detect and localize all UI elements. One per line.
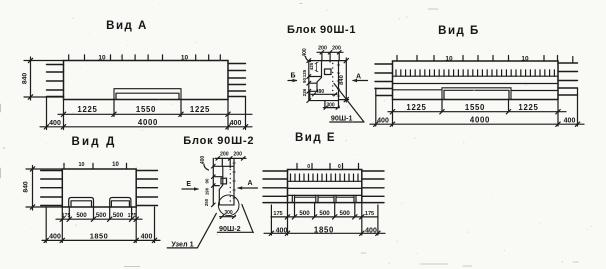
svg-text:10: 10: [445, 56, 453, 63]
view D right hatch: [136, 171, 157, 206]
block2 dim 300: [220, 210, 236, 219]
svg-text:175: 175: [365, 211, 374, 217]
svg-text:10: 10: [521, 56, 529, 63]
svg-text:400: 400: [49, 234, 61, 241]
block1 keyway notch: [325, 69, 332, 75]
block1 section arrow B: [288, 73, 298, 83]
view D extension lines: [46, 207, 154, 243]
view B ledge 1550: [442, 88, 511, 100]
view E mid line: [288, 187, 362, 189]
svg-text:175: 175: [62, 213, 71, 219]
svg-text:250: 250: [204, 198, 209, 206]
view E dim row 175 500 500 500 175: [271, 210, 378, 219]
block2 keyway notch: [221, 178, 227, 184]
view E dim row 400 1850 400: [264, 225, 385, 235]
svg-text:10: 10: [98, 55, 106, 62]
svg-text:500: 500: [319, 210, 330, 217]
block2 section outline: [219, 166, 234, 205]
svg-text:1225: 1225: [406, 103, 426, 112]
svg-text:90Ш-2: 90Ш-2: [219, 224, 241, 233]
view D ledge right: [110, 198, 131, 208]
view A dim row 1225 1550 1225: [58, 105, 252, 117]
view D left hatch: [41, 171, 63, 206]
svg-text:4000: 4000: [470, 116, 490, 125]
svg-text:1225: 1225: [518, 103, 538, 112]
svg-text:400: 400: [200, 156, 206, 165]
svg-text:0: 0: [307, 164, 310, 170]
view D top edge ticks: [64, 163, 127, 169]
view B outline: [393, 61, 559, 100]
view B right hatch: [558, 63, 578, 95]
view D outline: [62, 169, 136, 207]
block1 dim 200 200: [317, 45, 343, 62]
view A dim row 400 4000 400: [40, 118, 252, 129]
block2 detail circle: [218, 195, 239, 216]
svg-text:Вид Е: Вид Е: [295, 132, 336, 144]
svg-text:300: 300: [326, 102, 335, 108]
view B top edge ticks: [397, 56, 573, 63]
block2 left dim column: [204, 158, 223, 206]
svg-text:90: 90: [205, 178, 210, 183]
svg-text:10: 10: [79, 162, 85, 168]
svg-text:425: 425: [309, 62, 314, 70]
block1 dim 840 right: [339, 58, 349, 102]
block1 axis dots: [332, 63, 333, 96]
svg-text:400: 400: [230, 120, 242, 127]
block2 section arrow E: [182, 181, 199, 191]
block1 label 400 with leader: [302, 48, 311, 61]
view D dimension 840: [23, 166, 63, 211]
view E extension lines: [271, 203, 378, 235]
view A extension lines: [47, 97, 246, 130]
svg-text:400: 400: [276, 227, 288, 234]
svg-text:840: 840: [22, 73, 29, 85]
svg-text:500: 500: [96, 212, 107, 219]
svg-text:А: А: [247, 180, 252, 187]
svg-text:500: 500: [76, 212, 87, 219]
view E left hatch: [263, 171, 288, 203]
svg-text:500: 500: [340, 210, 351, 217]
svg-text:200: 200: [220, 152, 229, 158]
view B left hatch: [375, 64, 393, 96]
view A right hatch: [228, 64, 246, 97]
view D dim row 400 1850 400: [42, 232, 160, 243]
leader Uzel 1: [167, 213, 216, 248]
block2 label 400 with leader: [200, 156, 208, 170]
svg-text:90: 90: [302, 78, 307, 84]
view D ledge left: [69, 198, 94, 208]
svg-text:500: 500: [299, 210, 310, 217]
svg-text:Б: Б: [290, 73, 295, 80]
svg-text:200: 200: [332, 45, 341, 51]
block1 left dim column: [302, 59, 321, 103]
svg-text:840: 840: [23, 181, 30, 193]
block2 dim 200 200: [215, 152, 246, 168]
svg-text:840: 840: [339, 75, 345, 85]
svg-text:1850: 1850: [314, 225, 334, 234]
svg-text:1550: 1550: [465, 103, 485, 112]
view A ledge 1550: [114, 89, 181, 100]
view B extension lines: [376, 88, 578, 126]
svg-text:Е: Е: [186, 181, 191, 188]
view A left hatch: [47, 65, 64, 97]
block1 dim 490: [311, 89, 337, 96]
block1 section arrow A: [352, 74, 368, 83]
svg-text:0: 0: [338, 164, 341, 170]
svg-text:400: 400: [365, 227, 377, 234]
block2 leader 90Sh-2: [217, 205, 253, 234]
view D dim row 175 500 500 500 175: [56, 212, 142, 221]
svg-text:Вид Д: Вид Д: [71, 136, 116, 148]
view E right hatch: [362, 171, 384, 203]
view B dim row 1225 1550 1225: [388, 103, 566, 114]
block1 top level line: [309, 60, 347, 62]
block1 dim 300: [323, 101, 339, 110]
svg-text:190: 190: [205, 187, 210, 195]
view B comb line with ticks: [393, 70, 558, 76]
view A outline: [64, 61, 229, 100]
view E comb line with ticks: [288, 174, 362, 181]
view E outline: [288, 170, 362, 203]
svg-text:90Ш-1: 90Ш-1: [331, 114, 353, 123]
svg-text:175: 175: [128, 213, 137, 219]
svg-text:500: 500: [113, 212, 124, 219]
view A top edge ticks: [69, 55, 221, 61]
svg-text:400: 400: [49, 120, 61, 127]
view E ledge boxes: [292, 195, 356, 202]
svg-text:10: 10: [181, 55, 189, 62]
view B ledge band lines: [393, 89, 559, 92]
svg-text:400: 400: [302, 48, 308, 57]
svg-text:Вид Б: Вид Б: [438, 25, 480, 37]
svg-text:200: 200: [318, 45, 327, 51]
view B dim row 400 4000 400: [370, 116, 584, 127]
svg-text:10: 10: [112, 162, 119, 168]
block1 right edge rebar ticks: [337, 65, 340, 96]
block1 section outline: [310, 61, 339, 101]
svg-text:4000: 4000: [138, 118, 158, 127]
svg-text:1850: 1850: [90, 232, 108, 241]
svg-text:226: 226: [302, 88, 307, 96]
svg-text:Узел 1: Узел 1: [171, 239, 193, 248]
view E top edge ticks: [297, 164, 359, 170]
svg-text:400: 400: [564, 118, 576, 125]
svg-text:Блок 90Ш-2: Блок 90Ш-2: [183, 135, 254, 147]
svg-text:400: 400: [141, 234, 153, 241]
svg-text:125: 125: [302, 69, 307, 77]
block1 dim 425 inner: [309, 62, 318, 72]
block2 axis dots: [230, 169, 231, 202]
view E ledge band top: [288, 194, 362, 196]
svg-text:Вид А: Вид А: [106, 20, 148, 32]
svg-text:1550: 1550: [136, 105, 156, 114]
view B mid line: [393, 83, 559, 85]
block2 section arrow A: [237, 180, 257, 190]
block1 leader 90Sh-1: [330, 84, 364, 123]
view A dimension 840: [22, 57, 64, 100]
block2 right edge rebar ticks: [233, 163, 236, 198]
svg-text:Блок 90Ш-1: Блок 90Ш-1: [287, 24, 356, 36]
svg-text:300: 300: [224, 210, 233, 216]
svg-text:1225: 1225: [77, 105, 97, 114]
svg-text:200: 200: [233, 152, 242, 158]
svg-text:1225: 1225: [190, 105, 210, 114]
svg-text:400: 400: [377, 118, 389, 125]
svg-text:175: 175: [273, 211, 282, 217]
